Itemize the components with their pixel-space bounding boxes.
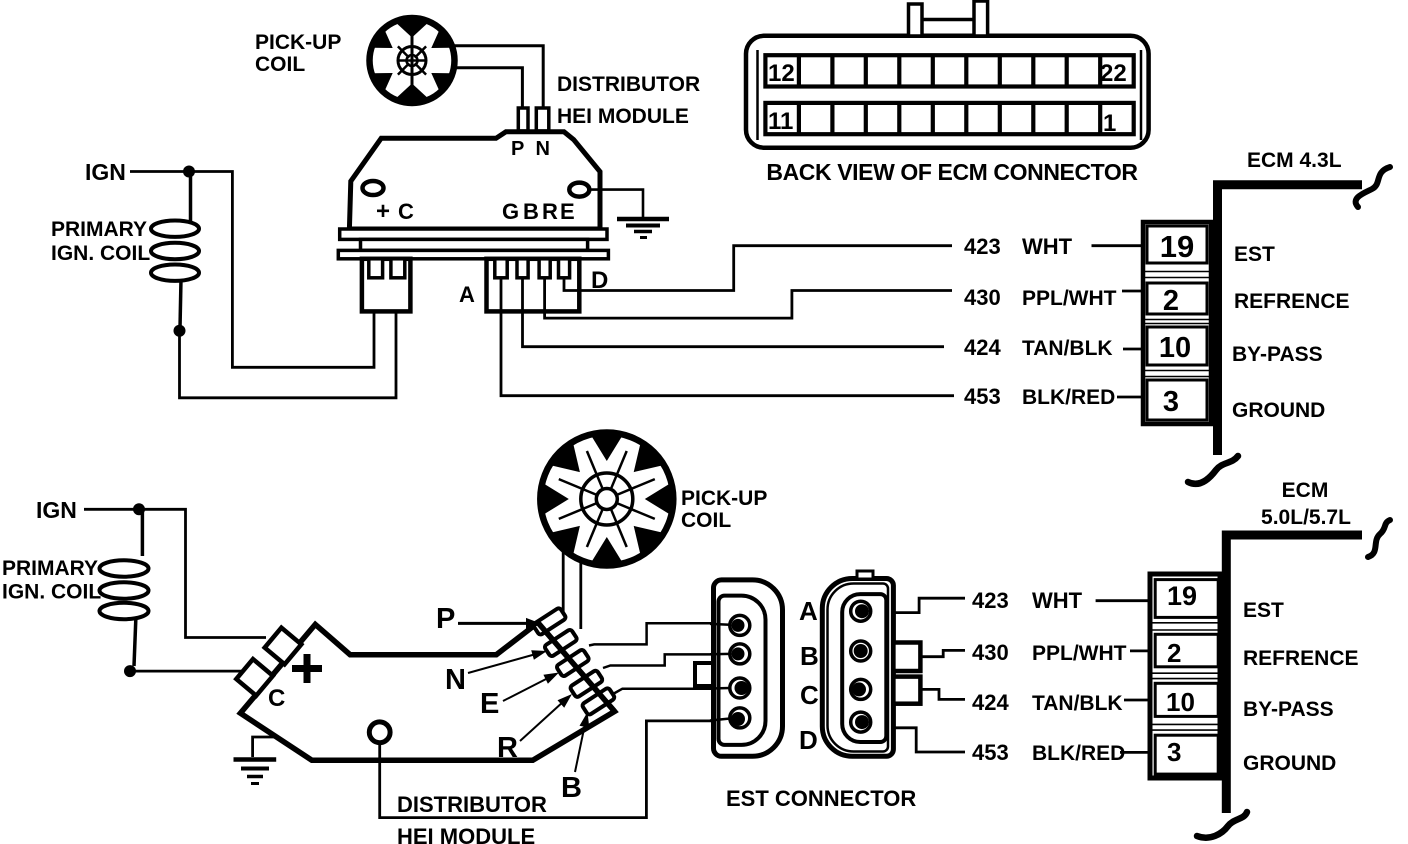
svg-text:WHT: WHT bbox=[1022, 234, 1073, 259]
wire: coil to module C tooth (lower) bbox=[130, 670, 246, 673]
svg-text:P: P bbox=[436, 603, 455, 635]
node IGN (top) bbox=[85, 159, 195, 185]
ECM 4.3L bracket line bbox=[1218, 185, 1363, 455]
svg-text:453: 453 bbox=[972, 740, 1009, 765]
svg-text:EST: EST bbox=[1243, 599, 1284, 622]
svg-text:TAN/BLK: TAN/BLK bbox=[1022, 337, 1113, 360]
ECM 4.3L pin header frame (top) bbox=[1143, 222, 1211, 424]
svg-text:PRIMARY: PRIMARY bbox=[51, 218, 147, 241]
svg-text:B: B bbox=[561, 772, 582, 804]
pin tube R (top right housing) bbox=[539, 259, 550, 278]
module pin P (top) bbox=[518, 108, 528, 131]
break squiggle bottom (ECM 4.3L) bbox=[1188, 456, 1238, 484]
break squiggle bottom (ECM 5.0L) bbox=[1197, 812, 1247, 838]
ground symbol (top) bbox=[617, 219, 669, 238]
svg-text:PICK-UP: PICK-UP bbox=[255, 31, 341, 54]
svg-text:10: 10 bbox=[1166, 687, 1195, 717]
svg-text:WHT: WHT bbox=[1032, 588, 1083, 613]
wire: pick-up coil to P tooth (lower) bbox=[562, 550, 565, 612]
wire: circle terminal to EST pin D bbox=[380, 721, 731, 818]
wire 424 TAN/BLK from pin B (top) bbox=[523, 277, 945, 347]
wire 453 BLK/RED from pin G (top) bbox=[501, 277, 954, 396]
svg-text:REFRENCE: REFRENCE bbox=[1234, 290, 1350, 313]
circle terminal R (lower module) bbox=[369, 722, 390, 743]
svg-text:11: 11 bbox=[768, 108, 793, 135]
module mounting plate bars (top) bbox=[338, 229, 608, 259]
pin tube C (top left housing) bbox=[391, 259, 405, 278]
svg-text:GROUND: GROUND bbox=[1243, 752, 1336, 775]
label PRIMARY IGN. COIL (lower) bbox=[2, 557, 101, 604]
wire stubs into EST left pins bbox=[710, 624, 730, 721]
svg-text:GROUND: GROUND bbox=[1232, 399, 1325, 422]
module pin N (top) bbox=[536, 108, 549, 131]
terminal labels G B R E (top module) bbox=[502, 199, 575, 224]
label 430 PPL/WHT (top) bbox=[964, 285, 1143, 310]
label E with leader (lower) bbox=[480, 673, 559, 721]
svg-text:3: 3 bbox=[1163, 386, 1179, 418]
wire: module screw to ground (top) bbox=[590, 190, 644, 217]
label 453 BLK/RED (top) bbox=[964, 384, 1145, 409]
svg-text:N: N bbox=[445, 664, 466, 696]
wire: E tooth to EST pin A bbox=[589, 623, 731, 645]
pin 2 cell (lower ECM) bbox=[1155, 634, 1218, 667]
separator lines (lower ECM) bbox=[1151, 623, 1219, 730]
EST right half top tab bbox=[857, 571, 873, 579]
label N with leader (lower) bbox=[445, 650, 547, 696]
label R with leader (lower) bbox=[497, 694, 572, 764]
break squiggle top right (ECM 4.3L) bbox=[1356, 167, 1390, 207]
svg-text:3: 3 bbox=[1167, 737, 1181, 767]
label PRIMARY IGN. COIL (top) bbox=[51, 218, 150, 265]
EST connector latch tab (left half) bbox=[695, 663, 714, 686]
svg-text:430: 430 bbox=[972, 640, 1009, 665]
label B with leader (lower) bbox=[561, 712, 589, 804]
ECM 5.0L/5.7L bracket line bbox=[1226, 535, 1362, 813]
module pin teeth P N E R B (lower) bbox=[533, 607, 616, 715]
svg-text:REFRENCE: REFRENCE bbox=[1243, 647, 1359, 670]
module connector housing right (top) bbox=[487, 259, 580, 312]
+ terminal tooth (lower module) bbox=[265, 628, 302, 665]
wire 430 PPL/WHT (lower) bbox=[921, 650, 966, 656]
svg-text:IGN: IGN bbox=[36, 497, 77, 523]
wire: IGN to module + pin (top) bbox=[189, 172, 374, 368]
label 423 WHT (top) bbox=[964, 234, 1143, 259]
wire 430 PPL/WHT from pin R (top) bbox=[545, 277, 952, 318]
svg-text:PICK-UP: PICK-UP bbox=[681, 487, 767, 510]
svg-text:423: 423 bbox=[964, 234, 1001, 259]
svg-text:TAN/BLK: TAN/BLK bbox=[1032, 692, 1123, 715]
pick-up coil symbol (lower distributor reluctor) bbox=[540, 433, 673, 566]
svg-text:424: 424 bbox=[972, 690, 1009, 715]
EST connector right half shell bbox=[822, 579, 893, 757]
svg-text:C: C bbox=[398, 199, 414, 224]
terminal labels + C (top module) bbox=[376, 198, 414, 225]
svg-text:DISTRIBUTOR: DISTRIBUTOR bbox=[397, 792, 547, 817]
wire 453 BLK/RED (lower) bbox=[893, 728, 965, 752]
pin tube G (top right housing) bbox=[495, 259, 507, 278]
ECM connector J1 back view shell bbox=[746, 36, 1149, 148]
primary ignition coil L2 (lower) bbox=[100, 509, 149, 677]
HEI module U2 body (lower) bbox=[240, 623, 614, 761]
break squiggle right (ECM 5.0L) bbox=[1368, 520, 1390, 557]
svg-text:+: + bbox=[376, 198, 390, 225]
svg-text:19: 19 bbox=[1160, 229, 1194, 264]
EST right pin D bbox=[851, 712, 871, 732]
wire: pick-up coil to module pin P (top) bbox=[452, 68, 522, 110]
label + (lower module) bbox=[292, 654, 322, 683]
label ECM 5.0L/5.7L bbox=[1261, 479, 1351, 529]
ECM connector pin row 11-1 bbox=[765, 103, 1133, 134]
EST left pin D bbox=[730, 708, 750, 728]
pin tube + (top left housing) bbox=[369, 259, 383, 278]
label: PICK-UP COIL (top) bbox=[255, 31, 341, 76]
svg-text:A: A bbox=[459, 282, 475, 307]
ECM connector top tab bbox=[909, 1, 988, 36]
svg-text:HEI MODULE: HEI MODULE bbox=[397, 824, 535, 844]
svg-text:IGN. COIL: IGN. COIL bbox=[51, 242, 150, 265]
C terminal tooth (lower module) bbox=[236, 659, 273, 696]
EST right pin A bbox=[851, 601, 871, 621]
label 453 BLK/RED (lower) bbox=[972, 740, 1151, 765]
separator lines (top ECM) bbox=[1144, 272, 1210, 377]
svg-text:22: 22 bbox=[1100, 60, 1127, 87]
svg-text:BLK/RED: BLK/RED bbox=[1032, 742, 1125, 765]
svg-text:IGN. COIL: IGN. COIL bbox=[2, 581, 101, 604]
svg-text:5.0L/5.7L: 5.0L/5.7L bbox=[1261, 506, 1351, 529]
svg-text:COIL: COIL bbox=[255, 53, 305, 76]
svg-text:A: A bbox=[799, 596, 818, 626]
svg-text:430: 430 bbox=[964, 285, 1001, 310]
svg-text:PPL/WHT: PPL/WHT bbox=[1032, 642, 1127, 665]
svg-text:BLK/RED: BLK/RED bbox=[1022, 386, 1115, 409]
pin tube B (top right housing) bbox=[517, 259, 528, 278]
svg-text:P N: P N bbox=[511, 138, 553, 160]
svg-text:B: B bbox=[523, 199, 539, 224]
svg-text:HEI MODULE: HEI MODULE bbox=[557, 105, 689, 128]
svg-text:12: 12 bbox=[768, 60, 795, 87]
EST left pin C bbox=[730, 678, 750, 698]
wire: module to ground (lower) bbox=[253, 737, 278, 757]
svg-text:C: C bbox=[268, 685, 285, 712]
pin 3 cell (lower ECM) bbox=[1155, 735, 1218, 774]
pin 3 cell (top ECM) bbox=[1147, 380, 1207, 420]
pin 10 cell (lower ECM) bbox=[1155, 683, 1218, 716]
svg-text:EST CONNECTOR: EST CONNECTOR bbox=[726, 786, 916, 811]
ECM connector inner end lines bbox=[758, 50, 1142, 140]
svg-text:G: G bbox=[502, 199, 519, 224]
pin 19 cell (lower ECM) bbox=[1155, 580, 1218, 618]
pin tube E (top right housing) bbox=[559, 259, 570, 278]
ECM connector pin row 12-22 bbox=[765, 55, 1133, 86]
wire: pick-up coil to module pin N (top) bbox=[452, 46, 543, 110]
svg-text:10: 10 bbox=[1159, 332, 1191, 364]
label P with arrow (lower) bbox=[436, 603, 542, 635]
wire: IGN to module + tooth (lower) bbox=[139, 509, 266, 637]
svg-text:424: 424 bbox=[964, 335, 1001, 360]
label PICK-UP COIL (lower) bbox=[681, 487, 767, 532]
wire 423 WHT from pin E (top) bbox=[564, 246, 952, 291]
svg-text:1: 1 bbox=[1103, 110, 1116, 137]
svg-text:EST: EST bbox=[1234, 243, 1275, 266]
label DISTRIBUTOR HEI MODULE (lower) bbox=[397, 792, 547, 844]
svg-text:PRIMARY: PRIMARY bbox=[2, 557, 98, 580]
EST right pin C bbox=[851, 679, 871, 699]
EST latch tabs right bbox=[893, 643, 920, 704]
module connector housing left (top) bbox=[362, 259, 411, 312]
label 424 TAN/BLK (top) bbox=[964, 335, 1147, 360]
label 424 TAN/BLK (lower) bbox=[972, 690, 1151, 715]
ECM 5.0L/5.7L pin header frame bbox=[1150, 574, 1220, 778]
label: DISTRIBUTOR HEI MODULE (top) bbox=[557, 73, 700, 128]
svg-text:R: R bbox=[497, 732, 518, 764]
wire 423 WHT (lower) bbox=[893, 598, 965, 612]
svg-text:E: E bbox=[560, 199, 575, 224]
EST connector left half shell bbox=[714, 580, 783, 756]
EST left pin B bbox=[730, 644, 750, 664]
svg-text:453: 453 bbox=[964, 384, 1001, 409]
svg-text:BACK VIEW OF ECM CONNECTOR: BACK VIEW OF ECM CONNECTOR bbox=[766, 159, 1138, 185]
svg-text:E: E bbox=[480, 688, 499, 720]
EST right pin B bbox=[851, 641, 871, 661]
svg-text:ECM 4.3L: ECM 4.3L bbox=[1247, 149, 1342, 172]
svg-text:ECM: ECM bbox=[1282, 479, 1329, 502]
svg-text:423: 423 bbox=[972, 588, 1009, 613]
pick-up coil symbol (top distributor reluctor) bbox=[370, 17, 455, 104]
node IGN (lower) bbox=[36, 497, 145, 523]
screw hole right (top module) bbox=[569, 183, 589, 197]
EST left pin A bbox=[730, 615, 750, 635]
wire: B tooth to EST pin C bbox=[613, 689, 731, 694]
ground symbol (lower) bbox=[234, 760, 277, 784]
svg-text:PPL/WHT: PPL/WHT bbox=[1022, 287, 1117, 310]
pin 10 cell (top ECM) bbox=[1147, 327, 1207, 365]
label 430 PPL/WHT (lower) bbox=[972, 640, 1151, 665]
svg-text:19: 19 bbox=[1167, 581, 1197, 611]
pin 2 cell (top ECM) bbox=[1147, 283, 1207, 314]
svg-text:B: B bbox=[800, 641, 819, 671]
wire: coil bottom to module C pin (top) bbox=[180, 311, 397, 398]
svg-text:COIL: COIL bbox=[681, 509, 731, 532]
svg-text:2: 2 bbox=[1163, 285, 1179, 317]
svg-text:BY-PASS: BY-PASS bbox=[1243, 698, 1334, 721]
label 423 WHT (lower) bbox=[972, 588, 1151, 613]
svg-text:D: D bbox=[799, 725, 818, 755]
wire 424 TAN/BLK (lower) bbox=[921, 689, 966, 699]
svg-text:IGN: IGN bbox=[85, 159, 126, 185]
HEI module U1 body (top) bbox=[349, 132, 600, 229]
wire: R tooth to EST pin B bbox=[603, 654, 731, 668]
svg-text:2: 2 bbox=[1167, 638, 1181, 668]
svg-text:C: C bbox=[800, 680, 819, 710]
svg-text:BY-PASS: BY-PASS bbox=[1232, 343, 1323, 366]
svg-text:DISTRIBUTOR: DISTRIBUTOR bbox=[557, 73, 700, 96]
svg-text:R: R bbox=[542, 199, 558, 224]
pin 19 cell (top ECM) bbox=[1147, 226, 1207, 263]
screw hole left (top module) bbox=[363, 181, 384, 195]
primary ignition coil L1 (top) bbox=[151, 172, 199, 337]
wire: pick-up coil to N tooth (lower) bbox=[579, 560, 582, 629]
